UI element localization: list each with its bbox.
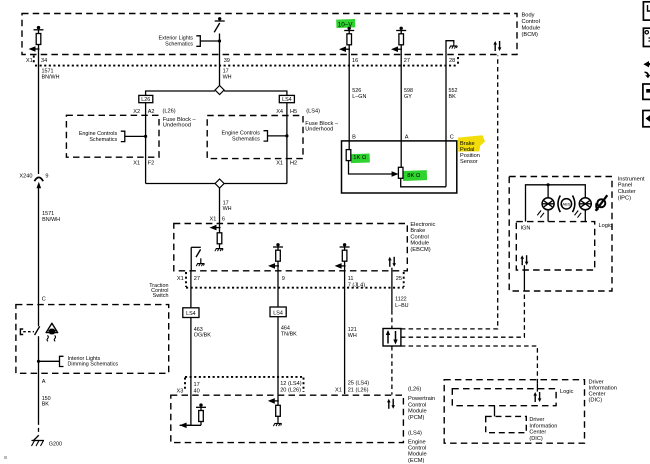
svg-text:B: B xyxy=(352,134,356,140)
toolbar icon box 3 xyxy=(643,84,650,99)
svg-text:TN/BK: TN/BK xyxy=(281,331,297,337)
fuse block (LS4) label xyxy=(305,108,339,132)
wire label 1571 BN/WH xyxy=(42,211,60,223)
wire 1122 L-BU solid xyxy=(391,268,393,310)
wiper wire with arrow xyxy=(349,161,399,177)
label X1 xyxy=(26,58,33,64)
EBCM connector stub right xyxy=(403,272,405,287)
svg-text:L–BU: L–BU xyxy=(395,303,409,309)
wire xyxy=(348,31,350,34)
wire 463 down xyxy=(190,271,192,308)
svg-text:9: 9 xyxy=(282,276,285,282)
labels X4 H5 xyxy=(276,109,297,115)
label X240 xyxy=(19,173,32,179)
arrow into BCM pin27 xyxy=(391,46,402,52)
wire xyxy=(38,45,40,175)
PCM X3 connector stub left xyxy=(184,378,186,392)
label 16 xyxy=(352,58,358,64)
svg-text:Sensor: Sensor xyxy=(460,159,478,165)
svg-text:Schematics: Schematics xyxy=(232,137,260,143)
toolbar icon box 2 xyxy=(643,28,650,46)
IPC logic inner dashed box xyxy=(516,222,594,270)
labels B A C xyxy=(352,134,454,140)
wire below switch xyxy=(38,336,40,421)
traction control switch label xyxy=(149,283,168,299)
EBCM pin label 9 xyxy=(282,276,285,282)
label 27 xyxy=(404,58,410,64)
svg-text:X4: X4 xyxy=(276,109,283,115)
engine controls callout bracket L26 xyxy=(121,131,125,141)
svg-text:Control: Control xyxy=(408,402,426,408)
resistor EBCM pin6 xyxy=(217,233,222,244)
svg-text:(L26): (L26) xyxy=(163,108,176,114)
svg-text:LS4: LS4 xyxy=(273,310,283,316)
svg-text:Logic: Logic xyxy=(560,389,574,395)
svg-text:X3: X3 xyxy=(177,388,184,394)
splice diamond top xyxy=(215,86,224,95)
wire xyxy=(400,31,402,34)
wire xyxy=(219,244,221,246)
svg-text:6: 6 xyxy=(222,216,225,222)
svg-text:Body: Body xyxy=(522,13,535,19)
svg-text:(IPC): (IPC) xyxy=(618,196,631,202)
T-dot BCM pin27 xyxy=(396,27,406,31)
svg-text:Instrument: Instrument xyxy=(618,176,645,182)
EBCM X1 connector stub left xyxy=(185,272,187,287)
wire label 17 WH xyxy=(223,68,232,80)
wire xyxy=(200,422,202,426)
exterior lights callout bracket xyxy=(196,36,200,47)
splice diamond bottom xyxy=(215,179,224,188)
TCS icon (car with skid marks in triangle) xyxy=(46,323,58,341)
junction dot lamp1 xyxy=(547,183,550,186)
svg-text:25: 25 xyxy=(396,276,402,282)
T-dot BCM pin16 xyxy=(344,27,354,31)
serial dashed to DIC (bottom) xyxy=(401,346,538,384)
svg-text:40: 40 xyxy=(194,388,200,394)
switch mechanical dashed link xyxy=(23,331,34,333)
svg-text:Control: Control xyxy=(410,234,428,240)
svg-text:Powertrain: Powertrain xyxy=(408,396,435,402)
BCM internal supply T-dot pin34 xyxy=(34,26,44,30)
svg-text:Center: Center xyxy=(529,430,546,436)
svg-text:10–V: 10–V xyxy=(338,21,354,28)
svg-text:11: 11 xyxy=(348,276,354,282)
brake pedal position sensor label xyxy=(460,141,480,165)
IPC lamp bus xyxy=(526,185,586,222)
svg-text:Underhood: Underhood xyxy=(163,123,191,129)
svg-text:Brake: Brake xyxy=(410,228,425,234)
PCM pin40 horizontal wire xyxy=(180,424,201,426)
wire 17 WH down to EBCM xyxy=(219,188,221,233)
svg-text:Electronic: Electronic xyxy=(410,222,435,228)
ground EBCM pin6 xyxy=(215,246,223,251)
wire 464 down xyxy=(277,271,279,307)
engine controls schematics label LS4 xyxy=(222,131,261,143)
fuse L26 box xyxy=(139,95,153,103)
svg-text:H2: H2 xyxy=(290,161,297,167)
switch lever xyxy=(214,23,220,32)
wire label 598 GY xyxy=(404,88,413,100)
arrow into EBCM pin 6 xyxy=(210,225,221,231)
svg-text:Logic: Logic xyxy=(599,223,613,229)
wire L26 fuse down xyxy=(145,103,147,184)
wire label 17 WH xyxy=(223,200,232,212)
interior lights dimming label xyxy=(68,356,119,368)
labels 12 (LS4) / 20 (L26) xyxy=(280,381,302,394)
svg-text:17: 17 xyxy=(194,382,200,388)
serial dashed down to PCM xyxy=(391,346,393,395)
toolbar rotate glyph xyxy=(645,72,650,79)
PCM connector stub middle xyxy=(303,378,305,393)
svg-text:BK: BK xyxy=(449,94,457,100)
wire 552 BK down to sensor xyxy=(445,55,447,187)
labels X2 A2 xyxy=(133,109,154,115)
callout line engine controls L26 xyxy=(125,135,146,137)
LS4 option box xyxy=(270,307,286,317)
DIC label xyxy=(589,380,617,404)
BCM connector stub right xyxy=(457,57,459,66)
wire label 463 OG/BK xyxy=(194,327,211,339)
wire xyxy=(38,30,40,34)
svg-text:X2: X2 xyxy=(133,109,140,115)
svg-text:21 (L26): 21 (L26) xyxy=(348,387,369,393)
EBCM output switch xyxy=(191,247,201,270)
wire xyxy=(277,416,279,421)
svg-text:Schematics: Schematics xyxy=(89,137,117,143)
traction switch lever xyxy=(35,326,40,335)
svg-text:(LS4): (LS4) xyxy=(408,431,422,437)
lamp1 stub xyxy=(547,185,549,198)
lamp1 rays xyxy=(537,211,544,218)
Instrument Panel Cluster (IPC) dashed box xyxy=(509,177,612,292)
PCM / ECM label xyxy=(408,387,435,464)
svg-text:121: 121 xyxy=(348,327,357,333)
svg-text:OG/BK: OG/BK xyxy=(194,333,211,339)
labels X1 6 xyxy=(210,216,226,222)
page corner mark xyxy=(4,456,7,459)
fuse LS4 box xyxy=(279,95,294,103)
sensor box xyxy=(342,141,457,193)
resistor BCM pin16 xyxy=(347,34,352,45)
arrow into PCM pin40 xyxy=(180,423,191,429)
ground G200 xyxy=(32,436,45,447)
fuse block underhood (L26) dashed box xyxy=(66,115,159,157)
svg-text:Cluster: Cluster xyxy=(618,189,636,195)
switch second pole bracket xyxy=(20,329,23,335)
fuse block (L26) label xyxy=(163,108,197,128)
svg-text:(L26): (L26) xyxy=(408,387,421,393)
label 9 xyxy=(45,173,48,179)
wire label 464 TN/BK xyxy=(281,326,297,338)
svg-text:Switch: Switch xyxy=(153,293,169,299)
lamp1 lower stub xyxy=(547,210,549,222)
svg-text:(EBCM): (EBCM) xyxy=(410,247,430,253)
EBCM pin labels 11 / 7 (JL4) xyxy=(348,276,366,288)
svg-text:Information: Information xyxy=(529,423,557,429)
svg-text:8K Ω: 8K Ω xyxy=(407,173,421,179)
resistor PCM pin20 xyxy=(276,405,281,416)
svg-text:WH: WH xyxy=(348,333,357,339)
svg-text:LS4: LS4 xyxy=(186,311,196,317)
wire below switch xyxy=(219,34,221,86)
svg-text:20 (L26): 20 (L26) xyxy=(280,388,301,394)
junction dot exterior lights tap xyxy=(218,39,221,42)
indicator lamp 1 xyxy=(542,198,554,210)
serial data arrows EBCM xyxy=(388,257,396,267)
wire xyxy=(38,188,40,327)
Traction Control Switch dashed box xyxy=(16,305,169,374)
BCM label xyxy=(522,13,541,38)
junction dot interior lights tap xyxy=(37,360,40,363)
toolbar icon box 1 xyxy=(643,2,650,20)
svg-text:A: A xyxy=(405,134,409,140)
wire label 552 BK xyxy=(449,88,458,100)
PCM connector dotted line xyxy=(185,376,304,378)
green highlight 1K xyxy=(351,153,370,163)
junction dot callout LS4 xyxy=(285,134,288,137)
svg-text:(DIC): (DIC) xyxy=(589,398,603,404)
wire label 1122 L-BU xyxy=(395,297,409,309)
resistor EBCM pin11 xyxy=(342,250,347,261)
top bus wire xyxy=(146,91,287,95)
switch contact T-dot xyxy=(215,17,225,21)
LS4 option box xyxy=(183,308,199,318)
resistor 1K xyxy=(346,150,367,162)
svg-text:34: 34 xyxy=(41,58,47,64)
T-dot EBCM pin9 xyxy=(273,243,283,247)
resistor EBCM pin9 xyxy=(276,250,281,261)
svg-text:Engine: Engine xyxy=(408,439,426,445)
arrow EBCM pin11 xyxy=(335,263,346,269)
svg-text:X1: X1 xyxy=(335,387,342,393)
resistor BCM pin34 xyxy=(36,34,41,45)
arrow into BCM pin 34 xyxy=(29,46,40,52)
wire xyxy=(344,247,346,250)
IGN label xyxy=(521,226,531,232)
sensor bottom wire xyxy=(401,178,446,187)
lamp2 rays xyxy=(575,211,582,218)
label 28 xyxy=(449,58,455,64)
svg-text:39: 39 xyxy=(224,58,230,64)
svg-text:Module: Module xyxy=(408,452,427,458)
resistor 8K xyxy=(398,167,421,179)
EBCM label xyxy=(410,222,435,253)
svg-text:G200: G200 xyxy=(49,441,62,447)
EBCM connector dotted line xyxy=(186,287,404,289)
svg-text:(DIC): (DIC) xyxy=(529,436,542,442)
serial data junction box xyxy=(383,329,401,347)
svg-text:ABS: ABS xyxy=(562,202,570,207)
labels X1 / 25 (LS4) / 21 (L26) xyxy=(335,380,369,393)
labels X1 F2 xyxy=(133,161,154,167)
svg-text:BN/WH: BN/WH xyxy=(42,74,60,80)
engine controls schematics label L26 xyxy=(79,131,118,143)
arrow EBCM pin9 xyxy=(268,263,279,269)
svg-text:X1: X1 xyxy=(133,161,140,167)
T-dot EBCM pin11 xyxy=(340,243,350,247)
inline connector X240 xyxy=(34,177,43,188)
svg-text:Control: Control xyxy=(408,446,426,452)
label G200 xyxy=(49,441,62,447)
serial data arrows DIC xyxy=(533,392,541,402)
svg-text:X1: X1 xyxy=(276,161,283,167)
Powertrain/Engine Control Module dashed box xyxy=(171,395,404,442)
Driver Information Center (DIC) dashed box xyxy=(444,380,584,444)
svg-text:Schematics: Schematics xyxy=(165,42,193,48)
svg-text:C: C xyxy=(42,297,46,303)
wire xyxy=(344,261,346,271)
wire 598 GY down to sensor xyxy=(400,45,402,168)
svg-text:(LS4): (LS4) xyxy=(306,108,320,114)
resistor PCM pullup xyxy=(199,411,204,422)
svg-text:Module: Module xyxy=(522,25,541,31)
serial data arrows PCM xyxy=(387,399,395,409)
svg-text:27: 27 xyxy=(404,58,410,64)
svg-text:F2: F2 xyxy=(148,161,155,167)
wire label 121 WH xyxy=(348,327,357,339)
labels X1 H2 xyxy=(276,161,297,167)
svg-text:28: 28 xyxy=(449,58,455,64)
arrow into BCM pin16 xyxy=(339,46,350,52)
label 39 xyxy=(224,58,230,64)
labels 17 / 40 / X3 xyxy=(177,382,200,394)
DIC serial wire solid xyxy=(536,384,538,392)
wire 121 down xyxy=(344,271,346,394)
svg-text:C: C xyxy=(450,134,454,140)
serial data arrows IPC xyxy=(520,255,528,265)
wire xyxy=(190,318,192,426)
fuse block underhood (LS4) dashed box xyxy=(207,116,303,159)
svg-text:A2: A2 xyxy=(148,109,155,115)
svg-text:Module: Module xyxy=(408,409,427,415)
svg-text:(PCM): (PCM) xyxy=(408,415,425,421)
brake warning icon xyxy=(596,195,608,211)
svg-text:Underhood: Underhood xyxy=(305,127,333,133)
callout line exterior lights xyxy=(200,40,219,42)
wire 526 L-GN down to sensor xyxy=(348,45,350,150)
DIC display small dashed box xyxy=(486,416,527,432)
svg-text:BN/WH: BN/WH xyxy=(42,217,60,223)
toolbar arrow glyph xyxy=(643,61,650,67)
svg-text:X1: X1 xyxy=(210,216,217,222)
svg-text:12 (LS4): 12 (LS4) xyxy=(280,381,302,387)
BCM pin28 ground hook xyxy=(446,41,454,55)
yellow highlight brake pedal xyxy=(458,135,485,151)
IPC label xyxy=(618,176,645,201)
toolbar icon box 4 xyxy=(643,111,650,127)
svg-text:WH: WH xyxy=(223,206,232,212)
svg-text:IGN: IGN xyxy=(521,226,531,232)
svg-text:BK: BK xyxy=(42,402,50,408)
svg-text:(BCM): (BCM) xyxy=(522,32,539,38)
junction dot callout L26 xyxy=(144,135,147,138)
svg-text:A: A xyxy=(42,379,46,385)
interior lights callout bracket xyxy=(60,356,64,366)
resistor BCM pin27 xyxy=(399,34,404,45)
wire label 150 BK xyxy=(42,396,51,408)
svg-text:H5: H5 xyxy=(290,109,297,115)
wire label 1571 BN/WH xyxy=(42,68,60,80)
svg-text:Control: Control xyxy=(522,19,540,25)
svg-text:Panel: Panel xyxy=(618,183,633,189)
svg-text:Module: Module xyxy=(410,241,429,247)
wire label 526 L-GN xyxy=(352,88,366,100)
svg-text:27: 27 xyxy=(194,276,200,282)
lamp2 lower stub xyxy=(584,210,586,222)
wire from DIC logic to display box xyxy=(494,406,496,417)
svg-text:Driver: Driver xyxy=(529,417,544,423)
wire LS4 fuse down xyxy=(286,103,288,184)
svg-text:LS4: LS4 xyxy=(282,97,292,103)
serial dashed to BCM (top) xyxy=(401,56,498,329)
label A xyxy=(42,379,46,385)
IPC Logic label xyxy=(599,223,613,229)
serial data arrows BCM xyxy=(493,41,501,51)
green highlight 8K xyxy=(403,170,427,181)
EBCM pin labels X1 27 xyxy=(177,276,200,282)
svg-text:1K Ω: 1K Ω xyxy=(353,155,367,161)
T-dot PCM pullup xyxy=(196,403,206,410)
svg-text:Dimming Schematics: Dimming Schematics xyxy=(68,362,119,368)
IPC serial wire solid xyxy=(523,265,525,289)
svg-text:X240: X240 xyxy=(19,173,32,179)
Body Control Module (BCM) dashed box xyxy=(22,14,517,55)
wire xyxy=(277,317,279,406)
serial dashed to IPC (middle) xyxy=(401,289,525,337)
callout line engine controls LS4 xyxy=(268,135,287,137)
Electronic Brake Control Module (EBCM) dashed box xyxy=(174,224,407,271)
bottom bus wire xyxy=(146,183,287,185)
label C xyxy=(42,297,46,303)
ground EBCM switch xyxy=(196,258,204,266)
wire 1122 dashed xyxy=(391,310,393,328)
svg-text:(ECM): (ECM) xyxy=(408,458,425,464)
dashed wire to ground xyxy=(38,421,40,436)
svg-text:X1: X1 xyxy=(177,276,184,282)
ground PCM pin20 xyxy=(273,421,281,426)
green highlight 10-V xyxy=(336,19,355,28)
svg-text:L26: L26 xyxy=(141,97,150,103)
BCM X1 connector stub left xyxy=(33,56,35,65)
svg-text:L–GN: L–GN xyxy=(352,94,366,100)
svg-text:X1: X1 xyxy=(26,58,33,64)
wire xyxy=(277,247,279,250)
wire xyxy=(277,261,279,271)
svg-text:1122: 1122 xyxy=(395,297,407,303)
svg-text:9: 9 xyxy=(45,173,48,179)
svg-text:16: 16 xyxy=(352,58,358,64)
DIC logic inner dashed box xyxy=(452,389,556,406)
svg-text:25 (LS4): 25 (LS4) xyxy=(348,380,370,386)
DIC display label xyxy=(529,417,557,442)
svg-text:7 (JL4): 7 (JL4) xyxy=(348,282,366,288)
ground BCM pin28 xyxy=(449,43,457,48)
callout line to interior lights xyxy=(39,360,60,362)
DIC Logic label xyxy=(560,389,574,395)
indicator lamp 2 xyxy=(579,198,591,210)
label 34 xyxy=(41,58,47,64)
engine controls callout bracket LS4 xyxy=(264,131,268,141)
BCM connector dotted line xyxy=(35,65,458,67)
svg-text:WH: WH xyxy=(223,74,232,80)
svg-text:GY: GY xyxy=(404,94,412,100)
arrow into PCM pin20 xyxy=(268,398,279,404)
exterior lights label xyxy=(159,36,194,48)
EBCM pin label 25 xyxy=(396,276,402,282)
ABS lamp in parens xyxy=(558,196,575,213)
